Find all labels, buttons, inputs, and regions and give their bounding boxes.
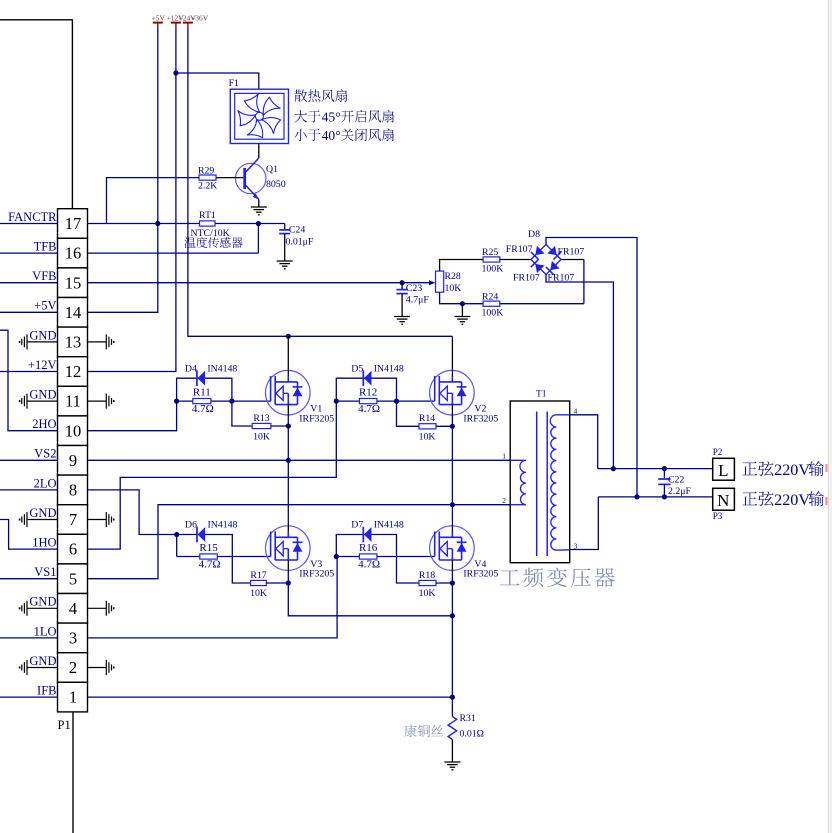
mosfet V1 internals: [271, 370, 298, 415]
resistor R14: [419, 424, 436, 429]
wire V3 drive gate loop: [177, 535, 233, 557]
svg-text:10K: 10K: [445, 283, 462, 294]
svg-text:1LO: 1LO: [34, 624, 57, 638]
wire R11 row: [177, 400, 232, 402]
junction bridge AC1 / L: [611, 466, 616, 471]
wire 1LO riser: [88, 557, 338, 638]
svg-text:GND: GND: [29, 595, 56, 609]
svg-text:3: 3: [69, 629, 77, 648]
ground C24: [277, 260, 293, 262]
junction 2HO/R11: [174, 399, 179, 404]
svg-text:R25: R25: [482, 247, 498, 258]
wire +HV rail: [188, 29, 453, 337]
svg-text:R14: R14: [419, 413, 435, 424]
svg-text:IRF3205: IRF3205: [299, 569, 334, 580]
svg-text:GND: GND: [29, 328, 56, 342]
transformer secondary winding: [550, 415, 569, 550]
transformer core: [536, 412, 538, 557]
junction C22 bottom: [662, 494, 667, 499]
svg-text:16: 16: [65, 244, 82, 263]
svg-text:2LO: 2LO: [34, 476, 57, 490]
ground pin 2 right: [88, 667, 107, 669]
diode bridge D8 diodes: [531, 246, 545, 260]
wire V2 source / right leg: [451, 414, 453, 526]
ground pin 11 left: [27, 400, 58, 402]
label 温度传感器: [184, 237, 195, 248]
svg-text:+5V: +5V: [152, 14, 166, 23]
junction bridge AC2 / N: [634, 494, 639, 499]
ground R31: [444, 761, 460, 763]
wire V2 drive gate loop: [336, 378, 396, 401]
svg-text:11: 11: [65, 392, 81, 411]
junction TFB/C24 node: [256, 221, 261, 226]
wire R14 to source leg: [436, 425, 452, 427]
junction +5V / RT1: [155, 221, 160, 226]
transformer primary winding: [510, 460, 526, 504]
ground R24/R28 node: [454, 316, 470, 318]
wire FANCTR-RT1 row: [88, 223, 285, 225]
ground pin 11 right: [88, 400, 107, 402]
svg-text:14: 14: [65, 303, 82, 322]
label 正弦220V输 line2: [742, 492, 757, 506]
svg-text:VS2: VS2: [34, 447, 56, 461]
ground pin 13 right: [88, 341, 107, 343]
wire T1 pin3 to N line: [570, 497, 599, 550]
capacitor C22: [663, 469, 665, 479]
wire V2 drain: [451, 336, 453, 370]
mosfet V3 substrate arrow: [276, 542, 283, 556]
svg-text:2.2K: 2.2K: [198, 181, 217, 192]
mosfet V4 circle: [430, 526, 475, 571]
svg-text:10K: 10K: [253, 432, 270, 443]
label 正弦220V输 line1: [742, 462, 757, 476]
ground pin 4 left: [27, 607, 58, 609]
wire VFB pin 15 left: [0, 282, 58, 284]
junction 2LO/D6: [174, 532, 179, 537]
diode D7: [362, 527, 364, 543]
potentiometer R28 body: [436, 271, 444, 292]
svg-text:FANCTR: FANCTR: [8, 210, 57, 224]
wire R28 bottom / R24 row: [440, 292, 584, 304]
wire R13 branch: [232, 401, 252, 426]
wire VFB row: [88, 282, 434, 284]
svg-text:R29: R29: [198, 166, 214, 177]
svg-text:1: 1: [502, 451, 506, 460]
svg-text:8: 8: [69, 481, 77, 500]
connector P2 box: [713, 458, 735, 480]
wire N line: [598, 496, 712, 498]
svg-text:GND: GND: [29, 654, 56, 668]
svg-text:D6: D6: [185, 520, 197, 531]
capacitor C24: [284, 224, 286, 230]
svg-text:2: 2: [69, 658, 77, 677]
svg-text:17: 17: [65, 214, 82, 233]
svg-text:6: 6: [69, 540, 77, 559]
wire R31 to ground: [451, 739, 453, 762]
svg-text:T1: T1: [536, 390, 547, 400]
svg-text:L: L: [718, 461, 728, 480]
wire VS2 pin 9 left: [0, 459, 58, 461]
svg-text:FR107: FR107: [513, 273, 540, 284]
wire V4 drive gate loop: [336, 535, 396, 557]
ground C23: [394, 316, 410, 318]
svg-text:GND: GND: [29, 388, 56, 402]
wire V4 source to shunt leg: [451, 570, 453, 716]
junction IFB/shunt leg: [450, 695, 455, 700]
svg-text:4: 4: [574, 406, 578, 415]
wire TFB pin 16 left: [0, 252, 58, 254]
mosfet V4 body diode: [457, 541, 467, 543]
svg-text:40°: 40°: [322, 128, 341, 143]
label 大于45度开启风扇: [294, 110, 307, 122]
svg-text:RT1: RT1: [199, 210, 216, 221]
svg-text:4.7μF: 4.7μF: [406, 294, 429, 305]
mosfet V4 substrate arrow: [440, 542, 447, 556]
wire T1 pin4 to L line: [570, 415, 598, 469]
svg-text:R13: R13: [253, 413, 269, 424]
mosfet V1 body diode: [293, 386, 303, 388]
wire V3 source to shunt rail: [288, 570, 452, 615]
resistor R17: [251, 580, 267, 585]
wire +12V rail: [88, 29, 176, 372]
svg-text:13: 13: [65, 333, 82, 352]
transformer T1 box: [510, 401, 570, 563]
wire R28 top to R25 row: [440, 260, 484, 272]
svg-text:R28: R28: [445, 271, 461, 282]
svg-text:15: 15: [65, 273, 82, 292]
wire Q1 emitter to ground: [258, 199, 260, 207]
connector P1 body: [58, 209, 88, 239]
ground pin 2 left: [27, 667, 58, 669]
wire R17 to source leg: [266, 582, 288, 584]
svg-text:220V: 220V: [774, 491, 810, 509]
svg-text:D7: D7: [351, 520, 363, 531]
svg-text:D4: D4: [185, 363, 197, 374]
wire ground stub: [461, 304, 463, 317]
junction +HV / V1 drain: [286, 334, 291, 339]
junction C23 top: [400, 280, 405, 285]
label 散热风扇: [294, 90, 307, 102]
wire 2HO pin 10 left jog: [0, 330, 58, 431]
junction R18/source: [450, 580, 455, 585]
svg-text:R17: R17: [250, 570, 266, 581]
svg-text:2HO: 2HO: [32, 417, 56, 431]
svg-text:FR107: FR107: [558, 247, 585, 258]
mosfet V1 substrate arrow: [276, 386, 283, 400]
svg-text:D5: D5: [351, 363, 363, 374]
wire V1 source / left leg: [287, 414, 289, 526]
svg-text:4.7Ω: 4.7Ω: [358, 558, 380, 570]
resistor R24: [483, 301, 500, 306]
wire R12 node to V2 gate: [397, 400, 435, 402]
wire TFB riser: [257, 224, 259, 254]
diode D4: [196, 370, 198, 386]
svg-text:P1: P1: [58, 718, 71, 732]
svg-text:100K: 100K: [482, 308, 504, 319]
junction C22 top: [662, 466, 667, 471]
wire V1 drive gate loop: [177, 378, 232, 401]
svg-text:FR107: FR107: [506, 244, 533, 255]
wire R13 to source leg: [271, 425, 288, 427]
ground Q1 emitter: [251, 206, 267, 208]
svg-text:IRF3205: IRF3205: [299, 413, 334, 424]
wire R15 row: [177, 556, 233, 558]
svg-text:IFB: IFB: [37, 684, 56, 698]
svg-text:2.2μF: 2.2μF: [668, 486, 691, 497]
diode D5: [362, 370, 364, 386]
svg-text:IN4148: IN4148: [207, 363, 237, 374]
wire +5V pin 14 left: [0, 311, 58, 313]
wire R12 row: [336, 400, 396, 402]
junction R11/R13 node: [229, 399, 234, 404]
svg-text:4.7Ω: 4.7Ω: [192, 403, 214, 415]
wire R15 node to V3 gate: [232, 556, 270, 558]
resistor R12: [359, 399, 377, 404]
wire R16 row: [336, 556, 396, 558]
mosfet V2 internals: [435, 370, 462, 415]
resistor R13: [252, 423, 271, 428]
svg-text:N: N: [717, 491, 729, 510]
wire R11 node to V1 gate: [232, 400, 271, 402]
mosfet V3 body diode: [293, 541, 303, 543]
wire +5V rail: [88, 29, 158, 313]
svg-text:C24: C24: [289, 225, 305, 236]
junction 1HO/R12: [334, 399, 339, 404]
wire R18 branch: [397, 557, 420, 584]
svg-text:Q1: Q1: [266, 164, 278, 175]
resistor R29: [199, 175, 216, 180]
resistor R11: [193, 399, 211, 404]
resistor R16: [359, 554, 377, 559]
svg-text:R24: R24: [482, 291, 498, 302]
svg-text:45°: 45°: [322, 109, 341, 124]
svg-text:R18: R18: [419, 570, 435, 581]
wire FANCTR jog to R29: [107, 178, 200, 224]
ground pin 7 left: [27, 519, 58, 521]
wire VS1 row: [88, 505, 511, 579]
svg-text:+5V: +5V: [34, 299, 56, 313]
capacitor C23: [401, 283, 403, 290]
junction R13/source: [286, 423, 291, 428]
ground pin 13 left: [27, 341, 58, 343]
svg-text:+12V: +12V: [28, 358, 57, 372]
svg-text:0.01Ω: 0.01Ω: [460, 729, 484, 740]
red clipped char marks: [825, 464, 827, 472]
power +5V bar: [153, 22, 163, 24]
junction R17/source: [286, 580, 291, 585]
svg-text:10K: 10K: [419, 432, 436, 443]
power +HV bar: [183, 22, 193, 24]
svg-text:10K: 10K: [419, 588, 436, 599]
svg-text:IRF3205: IRF3205: [463, 413, 498, 424]
mosfet V2 substrate arrow: [440, 386, 447, 400]
scrollbar band: [828, 0, 832, 833]
wire fan to Q1 collector: [258, 144, 260, 159]
svg-text:R31: R31: [460, 713, 476, 724]
mosfet V1 circle: [266, 370, 311, 415]
diode D6: [196, 527, 198, 543]
connector P1 bottom stub: [72, 712, 74, 833]
wire V1 drain: [287, 336, 289, 370]
wire R29 to Q1 base: [216, 177, 243, 179]
wire R14 branch: [397, 401, 420, 426]
junction +12V to fan: [173, 70, 178, 75]
svg-text:C22: C22: [668, 474, 684, 485]
resistor R25: [483, 257, 500, 262]
wire bridge top to N riser: [546, 238, 637, 497]
power +12V bar: [171, 22, 181, 24]
mosfet V2 body diode: [457, 386, 467, 388]
svg-text:100K: 100K: [482, 264, 504, 275]
svg-text:0.01μF: 0.01μF: [286, 237, 314, 248]
svg-text:P2: P2: [713, 447, 723, 457]
connector P3 box: [713, 488, 735, 510]
wire R18 to source leg: [436, 582, 452, 584]
mosfet V3 internals: [271, 526, 298, 571]
svg-text:TFB: TFB: [34, 240, 57, 254]
svg-text:1: 1: [69, 688, 77, 707]
resistor R31 shunt: [448, 717, 457, 740]
svg-text:R11: R11: [193, 387, 211, 399]
junction 1LO/R16: [334, 554, 339, 559]
svg-text:NTC/10K: NTC/10K: [191, 228, 230, 239]
mosfet V4 internals: [435, 526, 462, 571]
wire to connector top (off-page): [0, 20, 72, 209]
label 工频变压器: [500, 569, 520, 585]
wire L line: [598, 468, 713, 470]
thermistor RT1: [200, 221, 216, 226]
svg-text:GND: GND: [29, 506, 56, 520]
svg-text:10: 10: [65, 421, 82, 440]
ground pin 7 right: [88, 519, 107, 521]
svg-text:9: 9: [69, 451, 77, 470]
wire R16 node to V4 gate: [397, 556, 435, 558]
svg-text:12: 12: [65, 362, 82, 381]
svg-text:+36V: +36V: [191, 14, 209, 23]
junction R12/R14 node: [394, 399, 399, 404]
svg-text:7: 7: [69, 510, 77, 529]
junction R24 ground node: [460, 301, 465, 306]
wire TFB row: [88, 252, 259, 254]
wire 1LO pin 3 left: [0, 637, 58, 639]
mosfet V2 circle: [430, 370, 475, 415]
svg-text:220V: 220V: [774, 461, 810, 479]
label 小于40度关闭风扇: [294, 129, 306, 141]
wire IFB row: [88, 696, 453, 698]
wire 1HO pin 6 left jog: [0, 520, 58, 550]
ground pin 4 right: [88, 607, 107, 609]
svg-text:R16: R16: [359, 542, 378, 554]
svg-text:F1: F1: [229, 78, 239, 89]
wire bridge right corner down to R24: [583, 260, 585, 304]
mosfet V3 circle: [266, 526, 311, 571]
wire 2LO pin 8 left: [0, 489, 58, 491]
wire 1HO riser: [88, 401, 337, 549]
wire IFB pin 1 left: [0, 696, 58, 698]
svg-text:R12: R12: [359, 387, 377, 399]
wire R17 branch: [232, 557, 250, 584]
junction VS1/T1 pin2/right leg: [450, 502, 455, 507]
svg-text:P3: P3: [713, 511, 723, 521]
wire FANCTR pin 17 left: [0, 223, 58, 225]
svg-text:C23: C23: [406, 283, 422, 294]
wire 2LO riser: [88, 490, 177, 535]
junction shunt rail/right leg: [450, 613, 455, 618]
svg-text:2: 2: [502, 496, 506, 505]
wire 2HO riser: [88, 401, 177, 431]
svg-text:IN4148: IN4148: [208, 520, 238, 531]
wire +12V to fan F1: [176, 73, 259, 89]
wire R25 to bridge left: [500, 259, 531, 261]
fan F1 symbol: [230, 89, 288, 143]
wire bridge bottom to L riser: [546, 275, 613, 469]
svg-text:4.7Ω: 4.7Ω: [358, 403, 380, 415]
svg-text:10K: 10K: [250, 588, 267, 599]
junction VS2/left leg: [286, 458, 291, 463]
diode bridge D8 outline: [531, 245, 561, 275]
resistor R18: [419, 580, 436, 585]
svg-text:R15: R15: [199, 542, 218, 554]
wire VS2 row to T1 pin1: [88, 459, 511, 461]
transistor Q1 8050: [236, 163, 266, 193]
label 康铜丝: [404, 725, 416, 737]
svg-text:4: 4: [69, 599, 77, 618]
wire VS1 pin 5 left: [0, 578, 58, 580]
svg-text:4.7Ω: 4.7Ω: [199, 558, 221, 570]
svg-text:VFB: VFB: [32, 269, 56, 283]
resistor R15: [200, 554, 218, 559]
junction R14/source: [450, 424, 455, 429]
svg-text:5: 5: [69, 569, 77, 588]
wire +12V pin 12 left: [0, 371, 58, 373]
svg-text:VS1: VS1: [34, 565, 56, 579]
svg-text:IN4148: IN4148: [374, 520, 404, 531]
svg-text:IN4148: IN4148: [374, 363, 404, 374]
svg-text:IRF3205: IRF3205: [463, 569, 498, 580]
potentiometer R28 wiper arrow: [429, 280, 435, 285]
svg-text:1HO: 1HO: [32, 536, 56, 550]
svg-text:8050: 8050: [266, 179, 286, 190]
svg-text:D8: D8: [528, 229, 540, 240]
